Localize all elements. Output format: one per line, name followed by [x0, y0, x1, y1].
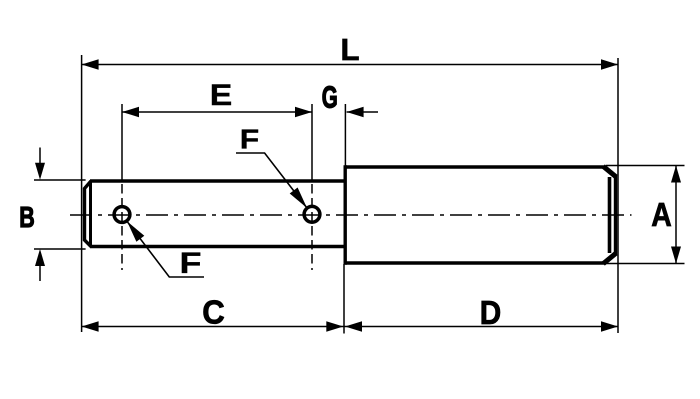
svg-text:A: A — [651, 197, 672, 234]
extension line right (L/D) — [617, 58, 619, 333]
dimension L — [82, 32, 618, 70]
leader F1 (lower) — [127, 221, 204, 280]
extension line left (L/C) — [81, 55, 83, 332]
small cylinder left end chamfer — [85, 181, 92, 247]
dimension E — [122, 79, 312, 117]
extension line C/D middle (shoulder bottom) — [343, 264, 345, 334]
dimension D — [344, 295, 618, 332]
hole F1 — [114, 207, 130, 223]
dimension G — [322, 80, 378, 118]
svg-text:B: B — [19, 202, 35, 234]
svg-text:G: G — [322, 80, 338, 115]
svg-text:F: F — [180, 247, 202, 280]
extension line G (shoulder) — [344, 104, 346, 166]
svg-text:C: C — [202, 294, 225, 331]
hole F1 vertical centerline — [121, 184, 123, 270]
small cylinder chamfer edge line — [89, 181, 92, 247]
svg-text:E: E — [210, 79, 233, 112]
small cylinder body outline — [90, 181, 345, 247]
centerline main axis — [66, 214, 632, 216]
dimension B — [19, 148, 85, 282]
dimension C — [82, 294, 344, 332]
extension line E right (hole F2) — [311, 104, 313, 180]
svg-text:F: F — [240, 124, 260, 155]
large cylinder body outline — [345, 165, 615, 264]
svg-text:L: L — [341, 32, 360, 67]
large cylinder right end chamfer — [603, 166, 616, 263]
large cylinder chamfer edge line — [608, 177, 612, 253]
hole F2 vertical centerline — [311, 184, 313, 270]
leader F2 (upper) — [236, 124, 307, 209]
extension line E left (hole F1) — [121, 104, 123, 181]
dimension A — [606, 166, 685, 264]
hole F2 — [304, 206, 320, 222]
svg-text:D: D — [480, 295, 502, 332]
